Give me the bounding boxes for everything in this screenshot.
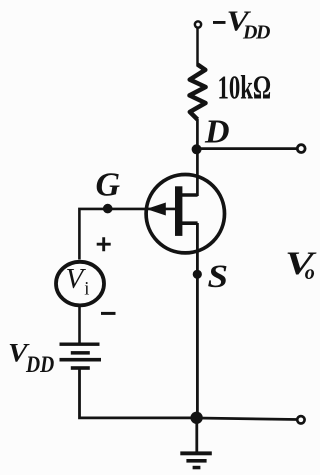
terminal output bottom right (297, 416, 304, 423)
terminal output top right (297, 145, 305, 153)
wire Vi to battery (78, 305, 81, 343)
junction ground node (190, 412, 202, 424)
wire source lead (196, 223, 199, 418)
svg-text:DD: DD (25, 352, 54, 378)
node D (192, 144, 202, 154)
node S (193, 270, 202, 279)
wire supply to resistor (196, 27, 199, 66)
transistor Q1 p-channel JFET (146, 175, 224, 253)
wire gate (79, 209, 175, 260)
svg-text:DD: DD (242, 21, 270, 43)
label Vo (285, 246, 318, 284)
label plus polarity (97, 237, 111, 251)
wire drain to output terminal (197, 147, 298, 150)
wire ground stub (195, 418, 198, 452)
svg-text:10kΩ: 10kΩ (218, 69, 272, 107)
wire resistor to drain node (196, 119, 199, 196)
label VDD battery (8, 339, 54, 377)
label minus polarity (101, 312, 116, 315)
svg-text:G: G (96, 167, 121, 204)
label -VDD (213, 5, 270, 44)
node G (103, 204, 113, 214)
source Vi input (56, 262, 104, 306)
svg-text:D: D (204, 114, 230, 151)
svg-text:i: i (84, 279, 89, 299)
svg-text:S: S (208, 258, 229, 295)
svg-text:o: o (305, 262, 315, 284)
terminal top (-VDD supply) (195, 21, 201, 27)
battery VDD (60, 343, 102, 370)
resistor R1 10k (190, 65, 206, 120)
wire output rail bottom (197, 418, 298, 420)
wire battery to ground rail (80, 368, 197, 418)
ground symbol (180, 451, 212, 469)
